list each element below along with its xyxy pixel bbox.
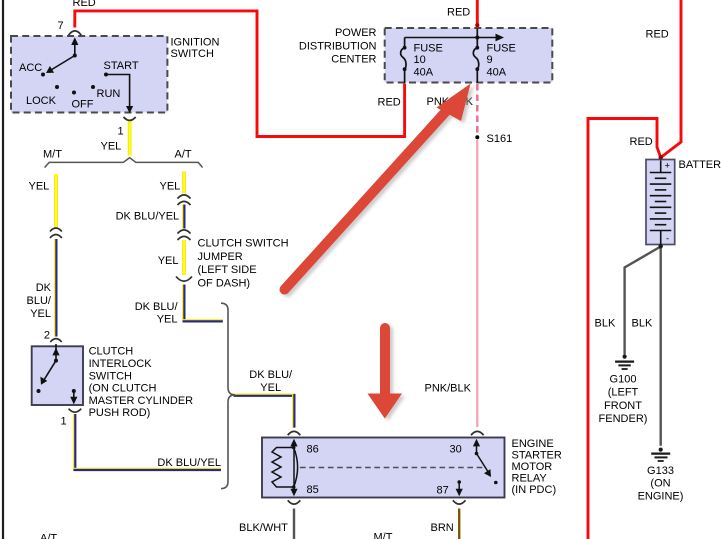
svg-text:LOCK: LOCK	[26, 95, 57, 107]
svg-text:MOTOR: MOTOR	[512, 461, 553, 473]
svg-text:RED: RED	[447, 7, 470, 19]
svg-text:BRN: BRN	[431, 522, 454, 534]
svg-text:DK BLU/: DK BLU/	[249, 369, 293, 381]
svg-text:FRONT: FRONT	[604, 400, 642, 412]
svg-text:YEL: YEL	[158, 255, 179, 267]
svg-text:40A: 40A	[414, 66, 434, 78]
svg-text:BLU/: BLU/	[27, 295, 52, 307]
svg-text:RED: RED	[630, 136, 653, 148]
svg-text:BLK/WHT: BLK/WHT	[239, 522, 288, 534]
svg-text:9: 9	[487, 54, 493, 66]
svg-text:RED: RED	[646, 29, 669, 41]
svg-text:INTERLOCK: INTERLOCK	[89, 358, 153, 370]
svg-text:DK BLU/YEL: DK BLU/YEL	[157, 457, 221, 469]
svg-text:RED: RED	[73, 0, 96, 9]
svg-text:CLUTCH: CLUTCH	[89, 346, 134, 358]
svg-text:YEL: YEL	[29, 181, 50, 193]
svg-text:M/T: M/T	[374, 532, 393, 539]
svg-text:YEL: YEL	[160, 181, 181, 193]
svg-text:30: 30	[450, 444, 462, 456]
svg-text:YEL: YEL	[30, 308, 51, 320]
svg-text:SWITCH: SWITCH	[171, 48, 214, 60]
svg-text:POWER: POWER	[335, 27, 377, 39]
svg-text:CENTER: CENTER	[331, 54, 376, 66]
svg-text:OF DASH): OF DASH)	[198, 277, 251, 289]
svg-text:86: 86	[307, 444, 319, 456]
svg-text:G100: G100	[610, 374, 637, 386]
svg-text:ACC: ACC	[19, 62, 42, 74]
svg-text:87: 87	[437, 485, 449, 497]
svg-text:YEL: YEL	[260, 382, 281, 394]
svg-text:(ON: (ON	[650, 478, 670, 490]
svg-text:RED: RED	[378, 97, 401, 109]
svg-text:(IN PDC): (IN PDC)	[512, 484, 557, 496]
svg-text:FUSE: FUSE	[414, 43, 443, 55]
svg-text:BLK: BLK	[632, 318, 653, 330]
svg-text:7: 7	[58, 20, 64, 32]
svg-text:IGNITION: IGNITION	[171, 36, 220, 48]
svg-text:RUN: RUN	[97, 88, 121, 100]
svg-text:(ON CLUTCH: (ON CLUTCH	[89, 383, 157, 395]
svg-text:M/T: M/T	[43, 149, 62, 161]
svg-text:(LEFT SIDE: (LEFT SIDE	[198, 264, 257, 276]
svg-text:BLK: BLK	[595, 318, 616, 330]
svg-text:DK BLU/: DK BLU/	[135, 301, 179, 313]
svg-text:YEL: YEL	[157, 314, 178, 326]
svg-text:A/T: A/T	[175, 149, 192, 161]
svg-text:JUMPER: JUMPER	[198, 251, 243, 263]
svg-text:-: -	[666, 234, 669, 245]
svg-text:40A: 40A	[487, 66, 507, 78]
svg-text:A/T: A/T	[40, 533, 57, 539]
svg-text:STARTER: STARTER	[512, 450, 562, 462]
svg-text:DK: DK	[36, 282, 52, 294]
svg-text:DK BLU/YEL: DK BLU/YEL	[116, 211, 180, 223]
svg-text:2: 2	[44, 330, 50, 342]
svg-text:ENGINE: ENGINE	[512, 438, 554, 450]
svg-text:1: 1	[118, 126, 124, 138]
svg-text:+: +	[665, 161, 671, 172]
svg-text:G133: G133	[647, 465, 674, 477]
svg-text:SWITCH: SWITCH	[89, 370, 132, 382]
svg-text:YEL: YEL	[101, 141, 122, 153]
svg-text:START: START	[104, 60, 139, 72]
svg-text:10: 10	[414, 54, 426, 66]
svg-text:MASTER CYLINDER: MASTER CYLINDER	[89, 395, 194, 407]
svg-text:85: 85	[307, 484, 319, 496]
svg-text:ENGINE): ENGINE)	[638, 490, 684, 502]
svg-text:S161: S161	[487, 133, 513, 145]
svg-text:FUSE: FUSE	[487, 43, 516, 55]
svg-text:OFF: OFF	[72, 99, 94, 111]
svg-text:RELAY: RELAY	[512, 473, 548, 485]
svg-text:BATTERY: BATTERY	[679, 159, 721, 171]
svg-text:1: 1	[61, 416, 67, 428]
svg-text:FENDER): FENDER)	[599, 413, 648, 425]
svg-text:PUSH ROD): PUSH ROD)	[89, 407, 151, 419]
svg-text:CLUTCH SWITCH: CLUTCH SWITCH	[198, 238, 289, 250]
svg-text:(LEFT: (LEFT	[608, 387, 639, 399]
svg-text:PNK/BLK: PNK/BLK	[425, 383, 472, 395]
svg-text:DISTRIBUTION: DISTRIBUTION	[299, 40, 377, 52]
